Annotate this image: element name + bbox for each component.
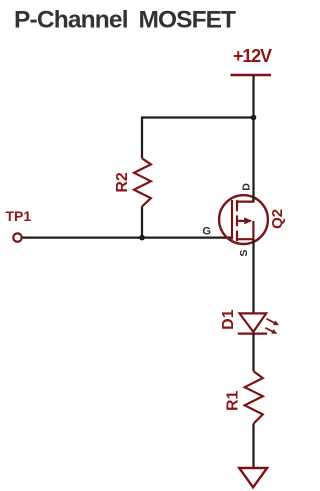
svg-text:P-Channel: P-Channel <box>14 7 129 34</box>
svg-text:Q2: Q2 <box>269 209 286 229</box>
wire top rail <box>142 116 254 118</box>
wire LED to R1 <box>252 334 254 372</box>
transistor Q2 source tap <box>237 239 253 243</box>
wire R1 to ground <box>252 423 254 468</box>
wire supply to rail <box>252 75 254 118</box>
svg-text:S: S <box>238 250 250 257</box>
wire R2 to gate net <box>141 207 143 238</box>
svg-text:R2: R2 <box>114 172 131 193</box>
transistor Q2 drain tap <box>237 197 253 202</box>
resistor R1 <box>245 372 263 424</box>
svg-text:G: G <box>202 226 211 238</box>
transistor Q2 body circle <box>219 195 268 244</box>
junction rail/drain <box>251 115 257 121</box>
LED D1 cathode bar <box>238 333 267 335</box>
transistor Q2 body-source link <box>252 221 254 239</box>
LED D1 light arrow 2 <box>265 328 272 332</box>
junction R2/gate <box>139 235 145 241</box>
transistor Q2 channel dash bottom <box>236 231 238 242</box>
transistor Q2 body tap with arrow <box>237 220 245 222</box>
wire drain <box>252 118 254 202</box>
svg-text:R1: R1 <box>225 390 242 411</box>
LED D1 triangle <box>240 313 267 332</box>
svg-text:MOSFET: MOSFET <box>139 7 237 34</box>
resistor R2 <box>134 158 151 206</box>
transistor Q2 channel dash top <box>236 200 238 211</box>
svg-text:TP1: TP1 <box>6 208 32 224</box>
wire rail to R2 <box>141 116 143 158</box>
LED D1 light arrow 1 <box>267 319 275 323</box>
transistor Q2 gate plate <box>231 200 233 240</box>
svg-text:D: D <box>241 183 253 191</box>
testpoint TP1 pad <box>13 233 21 241</box>
svg-text:D1: D1 <box>220 309 237 330</box>
supply +12V bar <box>231 74 272 76</box>
transistor Q2 channel dash middle <box>236 215 238 226</box>
svg-text:+12V: +12V <box>233 46 272 66</box>
wire gate net TP1 to mosfet <box>21 237 232 239</box>
ground <box>239 468 267 487</box>
wire source to LED <box>252 240 254 314</box>
